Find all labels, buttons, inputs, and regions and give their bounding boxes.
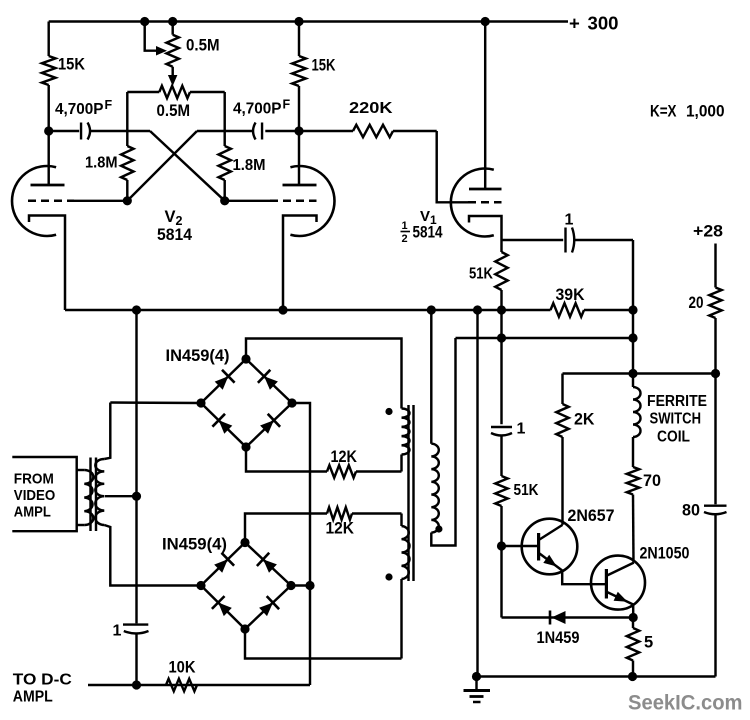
svg-text:1.8M: 1.8M bbox=[85, 155, 118, 172]
svg-text:12K: 12K bbox=[331, 448, 358, 466]
svg-text:1: 1 bbox=[113, 623, 122, 640]
svg-text:80: 80 bbox=[682, 502, 700, 520]
svg-text:FROM: FROM bbox=[14, 471, 54, 488]
svg-text:IN459(4): IN459(4) bbox=[162, 536, 227, 554]
svg-text:+: + bbox=[569, 13, 580, 34]
svg-text:51K: 51K bbox=[514, 482, 540, 499]
svg-text:5814: 5814 bbox=[157, 226, 193, 244]
svg-text:F: F bbox=[105, 98, 113, 112]
svg-text:AMPL: AMPL bbox=[14, 504, 51, 521]
svg-text:1: 1 bbox=[517, 421, 526, 438]
svg-text:39K: 39K bbox=[556, 286, 585, 304]
svg-text:2K: 2K bbox=[574, 411, 595, 429]
svg-text:220K: 220K bbox=[349, 100, 393, 117]
svg-text:15K: 15K bbox=[58, 56, 85, 74]
svg-text:SeekIC.com: SeekIC.com bbox=[628, 692, 743, 715]
svg-text:2: 2 bbox=[402, 233, 408, 245]
svg-text:1.8M: 1.8M bbox=[233, 157, 266, 174]
svg-text:COIL: COIL bbox=[657, 429, 690, 446]
svg-text:12K: 12K bbox=[326, 520, 355, 538]
svg-text:4,700P: 4,700P bbox=[233, 101, 282, 118]
svg-text:1: 1 bbox=[565, 212, 574, 229]
svg-text:AMPL: AMPL bbox=[13, 689, 53, 706]
svg-text:1: 1 bbox=[402, 220, 408, 232]
svg-text:2N1050: 2N1050 bbox=[640, 545, 690, 563]
svg-text:1N459: 1N459 bbox=[537, 629, 580, 647]
svg-text:1,000: 1,000 bbox=[686, 103, 725, 121]
svg-text:4,700P: 4,700P bbox=[55, 101, 104, 118]
svg-text:TO D-C: TO D-C bbox=[13, 672, 72, 689]
svg-text:VIDEO: VIDEO bbox=[14, 487, 56, 504]
svg-text:+28: +28 bbox=[693, 223, 723, 241]
svg-text:IN459(4): IN459(4) bbox=[166, 347, 230, 365]
svg-text:FERRITE: FERRITE bbox=[647, 393, 707, 410]
svg-text:F: F bbox=[283, 98, 291, 112]
svg-text:5814: 5814 bbox=[413, 224, 444, 242]
svg-text:51K: 51K bbox=[469, 266, 494, 283]
svg-text:SWITCH: SWITCH bbox=[650, 411, 702, 428]
svg-text:5: 5 bbox=[644, 634, 653, 652]
svg-text:300: 300 bbox=[588, 13, 619, 34]
svg-text:15K: 15K bbox=[312, 57, 336, 75]
svg-text:0.5M: 0.5M bbox=[157, 102, 191, 120]
svg-text:2N657: 2N657 bbox=[568, 507, 615, 525]
svg-text:10K: 10K bbox=[169, 659, 196, 677]
svg-text:0.5M: 0.5M bbox=[186, 37, 220, 55]
svg-text:K=X: K=X bbox=[650, 103, 677, 121]
svg-text:70: 70 bbox=[643, 472, 661, 490]
svg-text:20: 20 bbox=[689, 294, 704, 312]
